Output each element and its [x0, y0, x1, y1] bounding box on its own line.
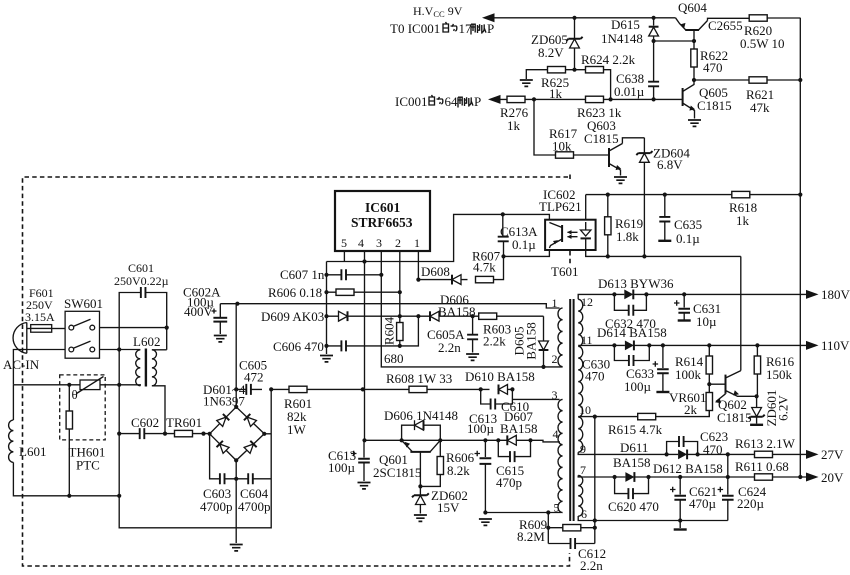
svg-text:100µ: 100µ — [467, 421, 495, 436]
svg-text:BA158: BA158 — [613, 455, 651, 470]
node C607 right at pin3 lead — [379, 273, 383, 277]
inductor L601 degauss coil — [9, 420, 47, 462]
wire IC601 pin2 lead — [399, 251, 401, 323]
arrow 27V output — [806, 450, 819, 459]
svg-text:4: 4 — [553, 427, 559, 441]
svg-text:R613 2.1W: R613 2.1W — [735, 436, 796, 451]
wire tie between rails — [727, 454, 729, 477]
svg-text:20V: 20V — [821, 470, 844, 485]
node R606 left on bus — [324, 290, 328, 294]
node R606 right at pin2 lead — [398, 290, 402, 294]
svg-text:1k: 1k — [736, 213, 750, 228]
diode D615 1N4148 — [601, 17, 659, 46]
node R604 bottom on C606 line — [398, 344, 402, 348]
capacitor C615 parallel loop — [496, 440, 531, 490]
wire 27V rail — [698, 453, 806, 455]
node R622 bottom / Q605 collector — [692, 78, 696, 82]
svg-text:D610 BA158: D610 BA158 — [465, 369, 535, 384]
node bridge left corner junction — [201, 432, 205, 436]
node D613 right — [644, 292, 648, 296]
resistor R607 — [472, 249, 504, 283]
resistor R603 — [473, 313, 544, 349]
wire fuse to SW601 — [52, 328, 65, 330]
node R624 drop on 64pin line — [609, 97, 613, 101]
svg-text:C2655: C2655 — [708, 18, 743, 33]
node C613b bottom on pin5 line — [483, 510, 487, 514]
wire T601 pin12 to 180V rail — [578, 294, 614, 299]
dashed isolation segment below IC602 — [569, 251, 571, 264]
node C631 top — [682, 292, 686, 296]
node vertical drop at x119 on PTC line — [117, 383, 121, 387]
svg-text:2.2n: 2.2n — [438, 340, 461, 355]
svg-text:47k: 47k — [750, 100, 770, 115]
capacitor C635 — [658, 195, 702, 246]
node pin4 on jog — [362, 259, 366, 263]
wire bridge right corner to AC2 riser — [264, 433, 271, 435]
node C605A top — [471, 314, 475, 318]
wire opto emitter out line — [504, 248, 550, 256]
svg-text:472: 472 — [244, 370, 264, 385]
svg-text:BA158: BA158 — [524, 322, 539, 360]
capacitor C602 — [119, 415, 165, 439]
wire bridge top corner up to HV node — [235, 304, 237, 407]
wire bridge bottom corner to hot ground — [235, 460, 237, 543]
diode D605 BA158 vertical — [512, 316, 549, 367]
arrow 110V output — [806, 341, 819, 350]
wire D609 line pin2 to pin1 — [400, 315, 419, 317]
transistor Q605 C1815 — [683, 80, 732, 126]
svg-text:P: P — [474, 94, 481, 109]
wire R617 branch — [534, 99, 603, 155]
diode D611 BA158 — [613, 440, 651, 482]
node D609 line at pin2 — [398, 314, 402, 318]
svg-text:2SC1815: 2SC1815 — [373, 465, 421, 480]
node D607 left — [496, 438, 500, 442]
diode D606 1N4148 over Q601 — [384, 408, 458, 440]
svg-text:470p: 470p — [496, 475, 522, 490]
wire plug stub to L601 top — [13, 350, 26, 385]
svg-text:SW601: SW601 — [64, 296, 103, 311]
svg-text:100µ: 100µ — [624, 379, 652, 394]
capacitor C633 electrolytic — [624, 345, 669, 394]
svg-text:2k: 2k — [684, 402, 698, 417]
node ZD604 drop on lower rail — [642, 254, 646, 258]
node Q601 collector junction — [438, 438, 442, 442]
svg-text:D615: D615 — [611, 17, 640, 32]
svg-text:10k: 10k — [552, 139, 572, 154]
wire R609 left riser — [547, 513, 549, 544]
node D613 left — [612, 292, 616, 296]
label IC001 64 pin — [395, 94, 481, 109]
svg-text:PTC: PTC — [76, 458, 100, 473]
svg-text:110V: 110V — [821, 338, 850, 353]
wire AC line top from plug to fuse — [27, 328, 31, 330]
diode D612 BA158 — [653, 450, 723, 477]
wire L602 left bottom to PTC line — [13, 385, 140, 386]
resistor TH601 vertical — [66, 385, 105, 496]
opto-coupler IC602 TLP621 — [539, 187, 596, 250]
resistor R615 4.7k — [608, 413, 663, 437]
svg-text:100k: 100k — [675, 367, 702, 382]
svg-text:θ: θ — [72, 387, 78, 402]
svg-text:T0 IC001: T0 IC001 — [390, 21, 440, 36]
node pin10 at common riser — [593, 415, 597, 419]
svg-text:12: 12 — [581, 295, 593, 309]
wire top H.Vcc rail — [494, 17, 676, 19]
svg-text:4700p: 4700p — [238, 499, 271, 514]
node 27V/20V tie top — [726, 452, 730, 456]
wire R615 line from T601 pin10 — [578, 411, 709, 417]
wire opto LED cathode down to lower rail — [586, 250, 741, 257]
capacitor C620 parallel loop below — [608, 477, 659, 514]
svg-text:C601: C601 — [128, 261, 154, 275]
diode D613 BYW36 — [598, 276, 674, 299]
TH601 dashed enclosure — [60, 375, 105, 440]
svg-text:470: 470 — [703, 60, 723, 75]
node Q601 emitter junction — [400, 438, 404, 442]
switch SW601 — [64, 296, 103, 358]
wire T601 pin7 to 20V rail — [578, 475, 614, 477]
svg-text:L602: L602 — [133, 334, 160, 349]
node D609 left on bus — [324, 314, 328, 318]
wire SW601 bottom output to L602 left top — [100, 349, 141, 351]
wire AC2 riser up to C605 line — [270, 389, 272, 433]
svg-text:C1815: C1815 — [584, 131, 619, 146]
svg-text:IC001: IC001 — [395, 94, 428, 109]
svg-text:1: 1 — [414, 236, 420, 250]
svg-text:C635: C635 — [674, 217, 702, 232]
svg-text:1N4148: 1N4148 — [601, 31, 643, 46]
label T0 IC001 pin17 — [390, 21, 494, 36]
capacitor C621 470u electrolytic — [670, 477, 717, 530]
wire T601 pin5 line — [485, 512, 561, 514]
wire 110V rail — [649, 344, 806, 346]
node C638 bottom on 64pin line — [652, 97, 656, 101]
transistor Q603 C1815 — [584, 118, 627, 183]
capacitor C602A electrolytic — [183, 285, 227, 342]
node D611 right — [646, 475, 650, 479]
svg-text:470: 470 — [585, 369, 605, 384]
IC601 STRF6653 block — [335, 191, 430, 251]
svg-text:T601: T601 — [551, 264, 578, 279]
wire IC601 source ground bus — [326, 262, 328, 355]
node ZD601 top — [755, 394, 759, 398]
main dashed border of primary (hot) side — [23, 177, 570, 566]
wire IC601 pin3 lead to T601 pin2 — [381, 251, 562, 367]
capacitor C604 — [236, 473, 271, 514]
resistor R618 — [729, 191, 757, 228]
node C601 left leg on bottom line — [117, 347, 121, 351]
node R617 tap — [532, 97, 536, 101]
wire C601 right leg to L602 right top — [152, 349, 167, 351]
ground hot primary below bridge — [230, 545, 243, 551]
transistor Q604 C2655 — [676, 0, 743, 49]
zener ZD601 6.2V — [749, 390, 791, 427]
diode D606 BA158 on pin1 net — [418, 292, 475, 321]
capacitor C605 — [236, 358, 267, 395]
resistor R617 10k — [549, 126, 578, 158]
svg-text:D609 AK03: D609 AK03 — [261, 309, 324, 324]
resistor R611 0.68 — [735, 459, 789, 480]
wire opto LED anode up to R619 rail — [586, 195, 801, 220]
node R614 top — [707, 343, 711, 347]
svg-text:D611: D611 — [620, 440, 648, 455]
inductor L602 common-mode choke — [133, 334, 160, 387]
node D610 left — [479, 387, 483, 391]
node C606 left on bus — [324, 344, 328, 348]
svg-text:AC-IN: AC-IN — [3, 357, 40, 372]
node C602 left — [117, 432, 121, 436]
node D612 left — [665, 452, 669, 456]
node D607 right — [528, 438, 532, 442]
capacitor C624 220u electrolytic — [718, 477, 767, 521]
svg-text:R608 1W 33: R608 1W 33 — [386, 371, 452, 386]
svg-text:150k: 150k — [766, 367, 793, 382]
resistor R622 470 — [691, 48, 728, 80]
svg-text:TR601: TR601 — [166, 415, 202, 430]
svg-text:5: 5 — [554, 501, 560, 515]
T601 primary winding 1-2 — [558, 308, 563, 367]
svg-text:P: P — [487, 21, 494, 36]
resistor R604 — [382, 316, 404, 366]
wire SW601 top output to C601 right leg — [100, 327, 167, 329]
svg-text:IC601: IC601 — [365, 200, 401, 215]
arrow 180V output — [806, 290, 819, 299]
node Q601 base / ZD602 top — [418, 484, 422, 488]
svg-text:C602: C602 — [131, 415, 159, 430]
wire C606 line to pin1 corner — [400, 316, 419, 346]
svg-text:4.7k: 4.7k — [473, 260, 496, 275]
svg-text:D612 BA158: D612 BA158 — [653, 461, 723, 476]
transistor Q601 2SC1815 — [373, 440, 440, 486]
bridge rectifier D601~4 1N6397 — [203, 382, 266, 463]
node HV rail tap — [235, 302, 239, 306]
node D614 right — [647, 343, 651, 347]
svg-text:5: 5 — [341, 236, 347, 250]
thermistor PTC element with slash — [72, 377, 104, 403]
wire right rail vertical — [799, 18, 801, 477]
wire D615 bottom to Q604 base — [654, 40, 694, 42]
wire T601 pin9 to 27V rail — [578, 452, 666, 454]
svg-text:C620 470: C620 470 — [608, 499, 659, 514]
svg-text:R604: R604 — [382, 316, 397, 345]
node C633 top — [661, 343, 665, 347]
wire Q604 collector to R620 — [708, 18, 750, 20]
wire IC601 pin1 lead — [417, 251, 419, 280]
node C621 top — [678, 475, 682, 479]
node R616 top — [755, 343, 759, 347]
node D611 left — [613, 475, 617, 479]
node snubber line at pin4 drop — [361, 387, 365, 391]
T601 secondary winding 12-11-10-9 — [578, 299, 583, 452]
svg-text:27V: 27V — [821, 447, 844, 462]
svg-text:4700p: 4700p — [200, 499, 233, 514]
node C635 top — [663, 193, 667, 197]
svg-text:R624 2.2k: R624 2.2k — [581, 52, 636, 67]
svg-text:2.2k: 2.2k — [483, 334, 506, 349]
resistor R609 8.2M — [517, 517, 595, 544]
T601 secondary winding 7-6 — [578, 475, 583, 516]
diode D610 BA158 — [465, 369, 535, 394]
node D612 right — [696, 452, 700, 456]
node C613b top — [483, 438, 487, 442]
wire L601 bottom to TH601 bottom — [13, 462, 119, 495]
node pin6 line at common riser — [593, 518, 597, 522]
node R621 right on right rail — [798, 78, 802, 82]
zener ZD602 15V — [412, 486, 468, 521]
node at x119 bottom of TH601 run — [117, 494, 121, 498]
svg-text:6.8V: 6.8V — [657, 157, 683, 172]
capacitor C613 100u electrolytic at opto side — [475, 440, 492, 525]
svg-text:250V0.22µ: 250V0.22µ — [114, 274, 169, 288]
node D609 line at pin1 — [416, 314, 420, 318]
svg-text:8.2V: 8.2V — [538, 45, 564, 60]
svg-text:7: 7 — [580, 463, 586, 477]
resistor R625 1k — [520, 67, 575, 102]
capacitor C613A — [498, 214, 538, 256]
svg-text:R615 4.7k: R615 4.7k — [608, 422, 663, 437]
svg-text:10µ: 10µ — [696, 314, 717, 329]
resistor R619 — [605, 195, 644, 257]
ground IC601 source bus — [320, 356, 333, 362]
node R619 bottom — [606, 254, 610, 258]
wire secondary common riser — [594, 417, 596, 544]
wire T601 pin11 to 110V rail — [578, 344, 614, 346]
svg-text:64: 64 — [445, 94, 459, 109]
svg-text:0.1µ: 0.1µ — [676, 231, 700, 246]
node TH601 bottom — [67, 494, 71, 498]
node R614 bottom / Q602 base tap — [707, 382, 711, 386]
capacitor C603 — [200, 434, 236, 514]
svg-text:1N6397: 1N6397 — [203, 394, 245, 409]
wire T601 pin6 common line — [578, 516, 728, 521]
node bridge top on C605 line — [234, 387, 238, 391]
capacitor C638 0.01u — [614, 41, 659, 99]
resistor R606 current sense — [268, 285, 400, 300]
svg-text:100µ: 100µ — [328, 460, 356, 475]
transistor Q602 C1815 — [709, 371, 756, 425]
capacitor C630 parallel loop — [582, 345, 649, 383]
node ZD605 top on rail — [572, 16, 576, 20]
diode D607 BA158 — [467, 409, 538, 445]
node AC2 riser top — [269, 387, 273, 391]
svg-text:3: 3 — [376, 236, 382, 250]
resistor R616 150k — [754, 345, 794, 396]
resistor R624 2.2k — [575, 52, 636, 99]
wire L602 right bottom down to C602/TR601 line — [152, 386, 165, 434]
wire D607 line to T601 pin4 — [531, 440, 561, 442]
svg-text:680: 680 — [384, 351, 404, 366]
resistor TR601 — [165, 415, 210, 437]
node pin1 at D608 — [416, 278, 420, 282]
node R618 right on right rail — [798, 193, 802, 197]
diode D608 — [418, 264, 467, 285]
svg-text:BA158: BA158 — [500, 421, 538, 436]
wire drive line into opto collector — [503, 214, 550, 222]
T601 core — [570, 299, 573, 521]
diode D614 BA158 — [597, 325, 667, 350]
node C603/C604 mid — [234, 477, 238, 481]
resistor R620 0.5W 10 — [740, 15, 800, 51]
svg-text:1.8k: 1.8k — [616, 229, 639, 244]
capacitor C613 100u small electrolytic — [328, 440, 371, 489]
capacitor C631 electrolytic — [674, 294, 721, 329]
svg-text:C607 1n: C607 1n — [280, 267, 325, 282]
potentiometer VR601 2k — [669, 390, 726, 417]
svg-text:3.15A: 3.15A — [25, 310, 55, 324]
node R607 riser at opto emitter line — [501, 254, 505, 258]
svg-text:3: 3 — [552, 388, 558, 402]
node right rail bottom on 20V — [798, 475, 802, 479]
node Q601 line at pin4 drop — [362, 438, 366, 442]
svg-text:17: 17 — [459, 21, 473, 36]
svg-text:8.2M: 8.2M — [517, 529, 545, 544]
svg-text:1: 1 — [552, 296, 558, 310]
svg-text:C1815: C1815 — [697, 98, 732, 113]
resistor R623 1k — [577, 96, 622, 120]
svg-text:L601: L601 — [19, 444, 46, 459]
wire x119 vertical line1 down to bottom run — [119, 350, 271, 528]
wire Q603 collector to ZD604 — [622, 138, 644, 144]
svg-text:0.1µ: 0.1µ — [512, 237, 536, 252]
zener ZD604 6.8V — [636, 138, 690, 257]
svg-text:2: 2 — [552, 352, 558, 366]
svg-text:D606 1N4148: D606 1N4148 — [384, 408, 458, 423]
capacitor C601 — [114, 261, 169, 350]
svg-text:6.2V: 6.2V — [776, 395, 791, 421]
svg-text:2.2n: 2.2n — [580, 558, 603, 573]
svg-text:C606 470: C606 470 — [273, 339, 324, 354]
transformer T601 — [551, 264, 593, 521]
svg-text:2: 2 — [395, 236, 401, 250]
svg-text:1k: 1k — [507, 118, 521, 133]
node top line end at C601 right leg — [165, 326, 169, 330]
svg-text:Q604: Q604 — [678, 0, 707, 15]
capacitor C606 — [273, 339, 400, 354]
arrow to IC001 pin 64 — [488, 95, 501, 104]
diode D609 AK03 — [261, 309, 400, 324]
node R609 right on secondary common riser — [593, 526, 597, 530]
zener ZD605 8.2V — [531, 18, 583, 70]
svg-text:180V: 180V — [821, 287, 850, 302]
svg-text:10: 10 — [579, 403, 591, 417]
capacitor C607 — [280, 267, 381, 282]
wire lower rail drop to Q602 collector — [740, 256, 742, 370]
arrow 20V output — [806, 473, 819, 482]
capacitor C612 parallel loop — [548, 538, 606, 573]
node TR601 line at x165 — [163, 432, 167, 436]
capacitor C632 parallel loop — [605, 294, 656, 331]
wire HV rail C602A to T601 pin1 — [220, 304, 559, 308]
svg-text:BA158: BA158 — [438, 304, 476, 319]
T601 primary winding 3-4-5 — [558, 399, 563, 512]
arrow H.Vcc to IC001 pin17 — [482, 13, 495, 22]
node C613A top on drive line — [501, 212, 505, 216]
node D605 bottom on pin2 line — [541, 365, 545, 369]
resistor R621 47k — [694, 77, 800, 115]
svg-text:0.01µ: 0.01µ — [614, 84, 645, 99]
svg-text:D614 BA158: D614 BA158 — [597, 325, 667, 340]
node R609 tap on pin5 line — [546, 510, 550, 514]
svg-text:R611 0.68: R611 0.68 — [735, 459, 789, 474]
wire left drop to L601 — [12, 385, 14, 420]
fuse F601 — [25, 286, 55, 332]
resistor R608 — [363, 371, 481, 393]
svg-text:STRF6653: STRF6653 — [351, 215, 413, 230]
wire IC601 pin5 lead and jog — [327, 214, 503, 261]
svg-text:4: 4 — [358, 236, 364, 250]
node Q604 base line — [692, 39, 696, 43]
